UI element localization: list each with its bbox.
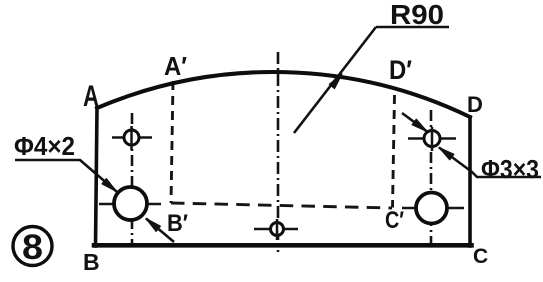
svg-text:C′: C′	[385, 207, 404, 234]
svg-text:D′: D′	[389, 55, 412, 85]
svg-text:R90: R90	[390, 0, 444, 30]
svg-text:Φ3×3: Φ3×3	[481, 154, 539, 184]
svg-text:B′: B′	[167, 210, 188, 237]
svg-text:A′: A′	[164, 51, 187, 81]
svg-text:Φ4×2: Φ4×2	[14, 131, 75, 161]
svg-text:D: D	[467, 92, 483, 117]
svg-text:C: C	[473, 245, 488, 268]
svg-text:A: A	[83, 80, 99, 113]
svg-text:8: 8	[22, 228, 43, 267]
svg-text:B: B	[83, 249, 100, 275]
